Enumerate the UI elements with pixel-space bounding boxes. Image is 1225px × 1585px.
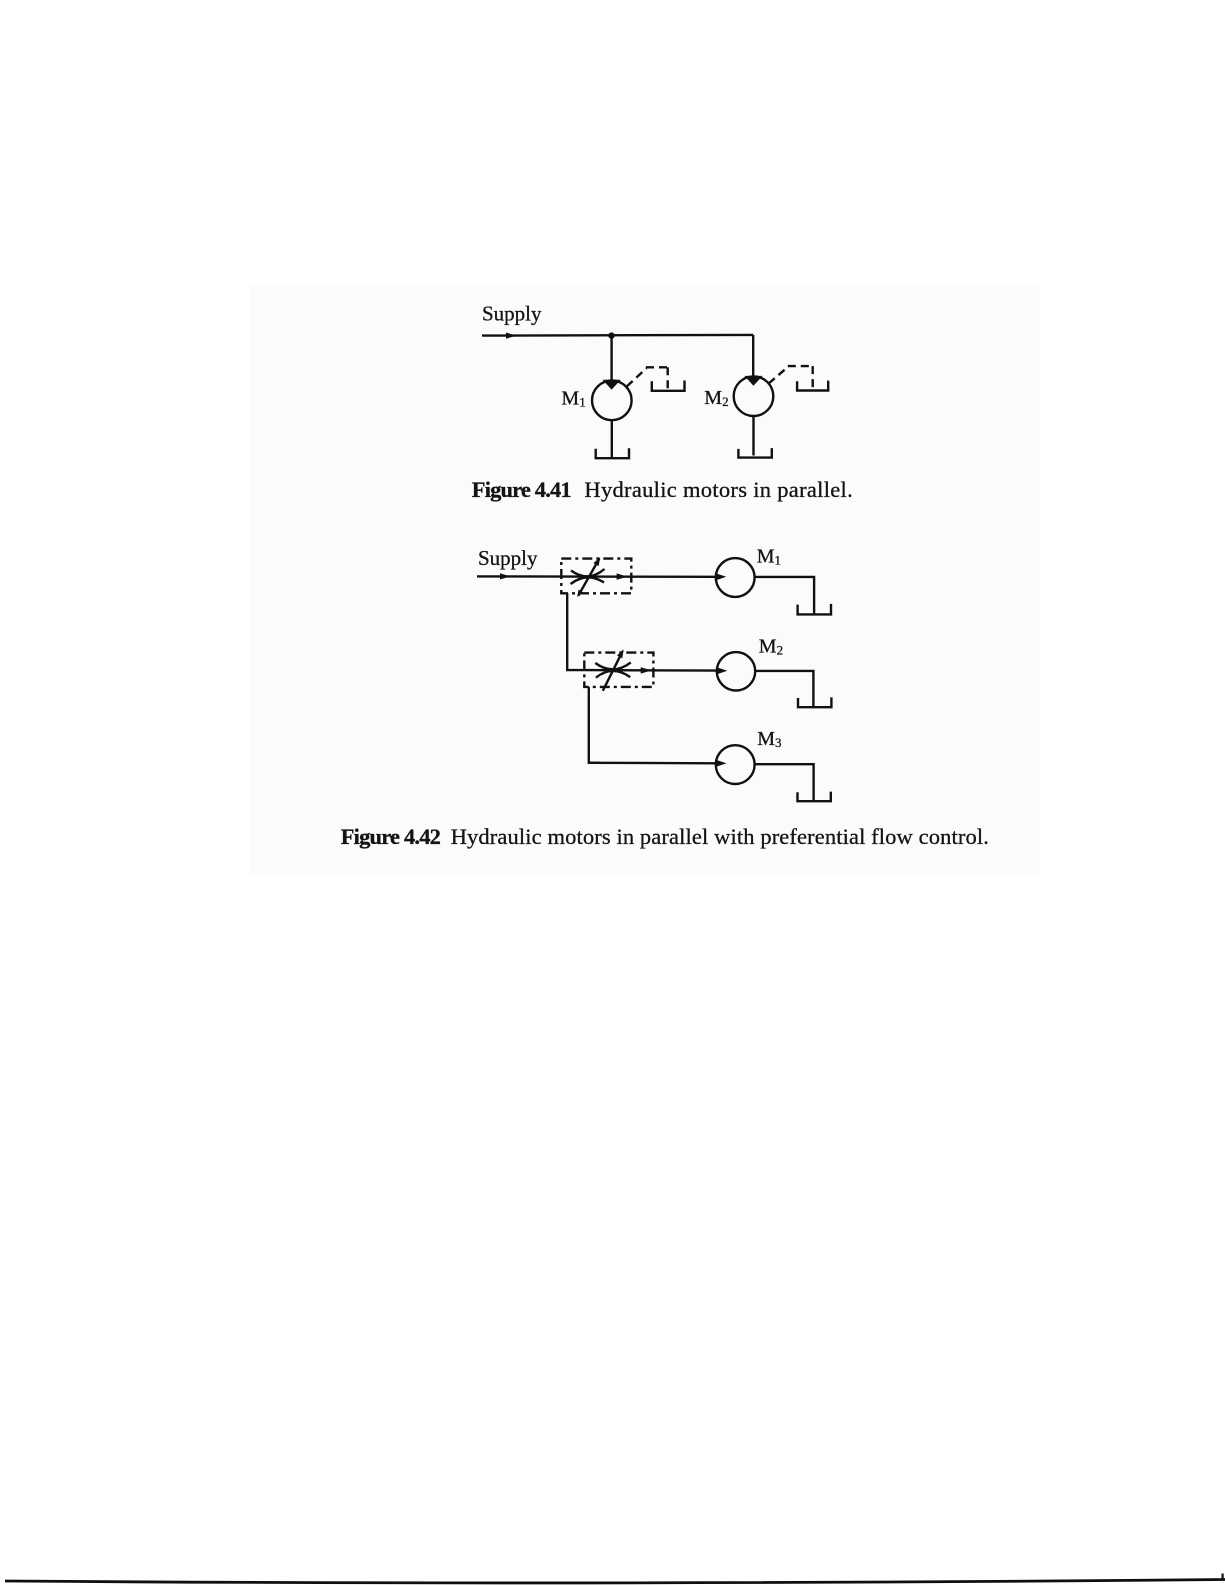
- svg-text:Supply: Supply: [478, 546, 538, 570]
- svg-text:Figure 4.41Hydraulic motors in: Figure 4.41Hydraulic motors in parallel.: [472, 477, 853, 502]
- svg-text:Figure 4.42Hydraulic motors in: Figure 4.42Hydraulic motors in parallel …: [341, 824, 989, 849]
- svg-text:Supply: Supply: [482, 302, 542, 326]
